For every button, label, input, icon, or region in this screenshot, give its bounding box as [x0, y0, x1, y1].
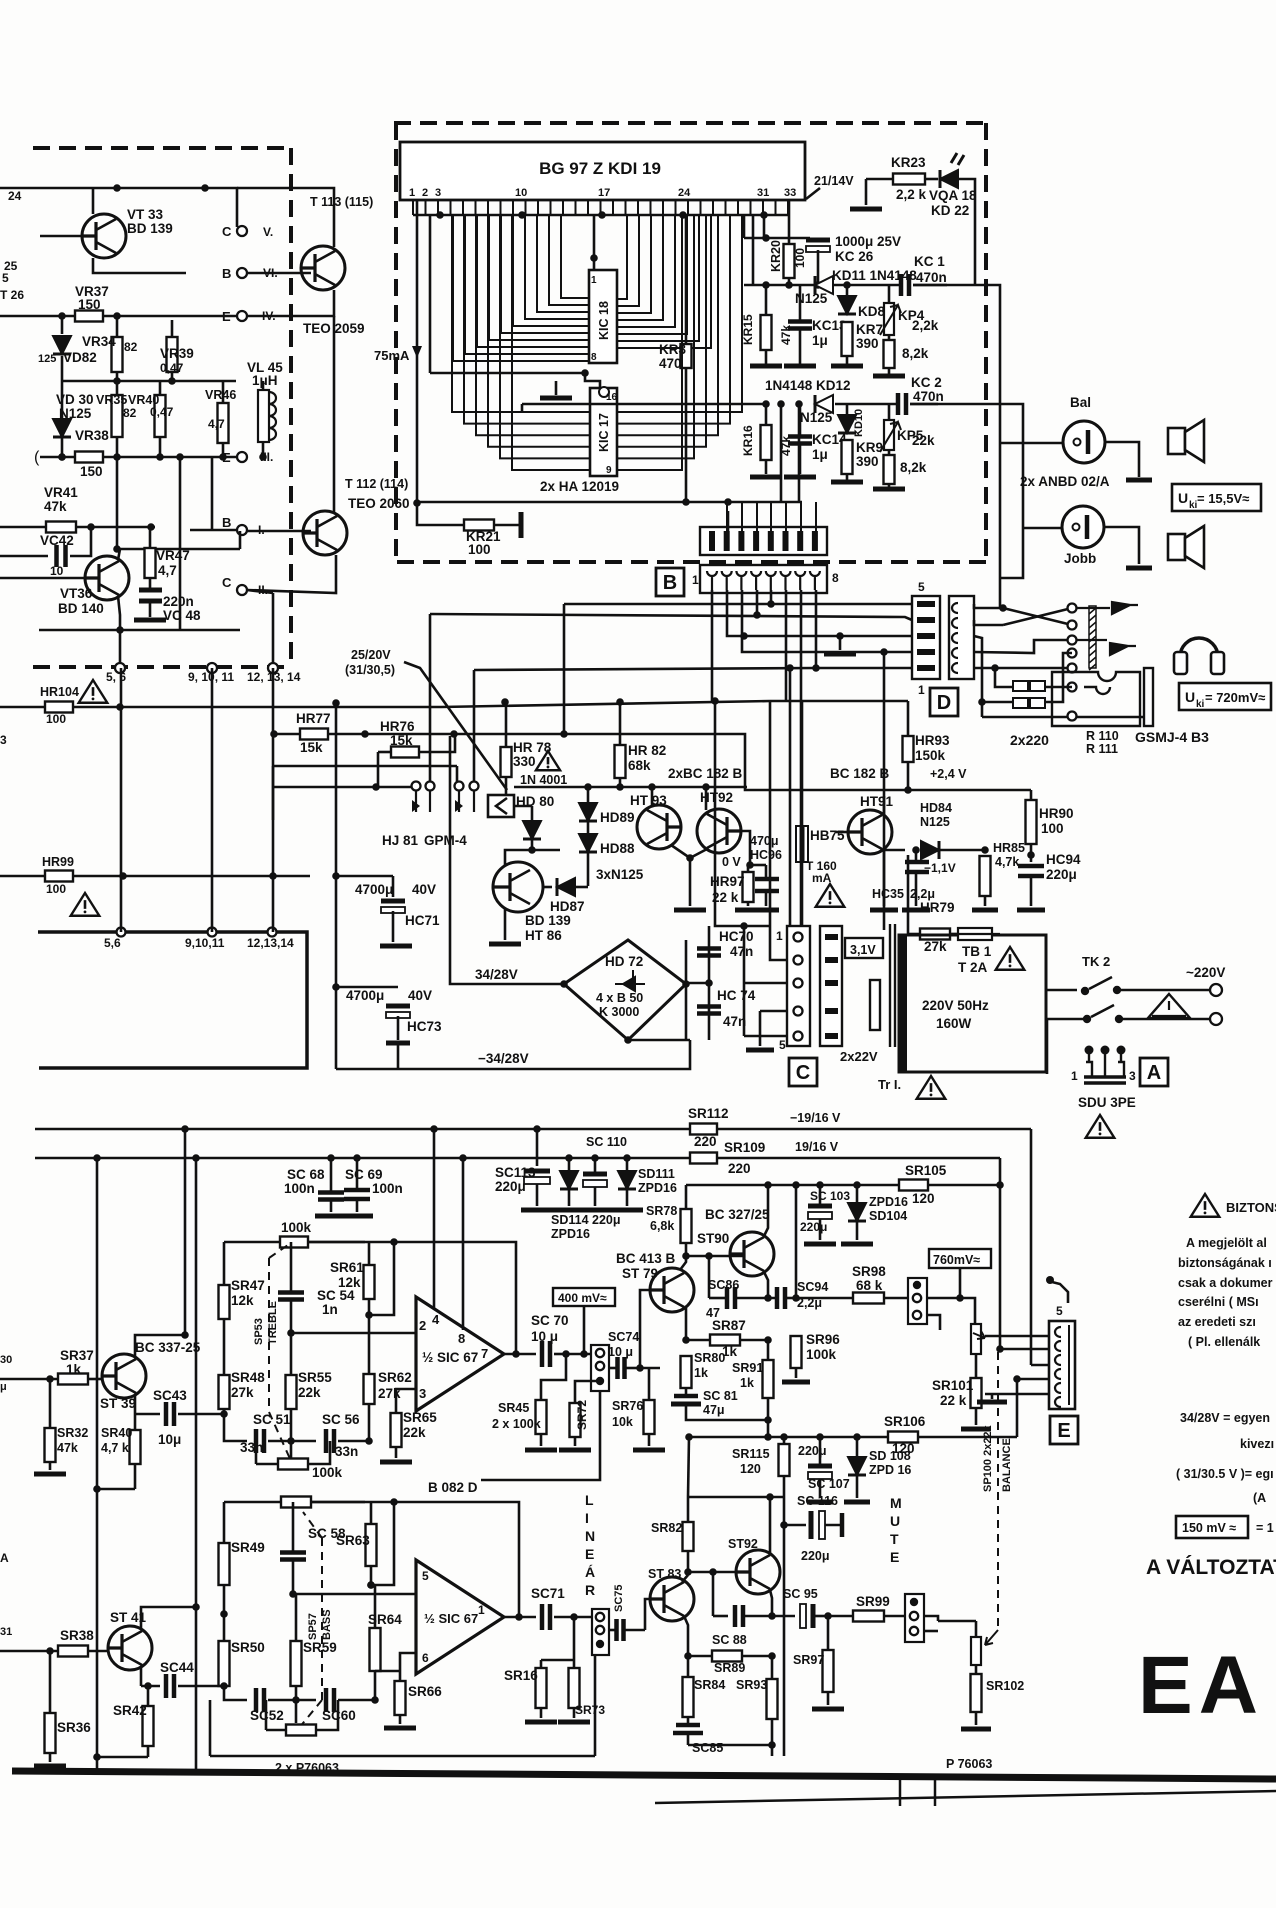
svg-text:T 2A: T 2A [958, 960, 988, 975]
svg-text:22k: 22k [912, 433, 935, 448]
svg-text:SC 56: SC 56 [322, 1412, 360, 1427]
IC U1 BG 97 Z KDI 19 [400, 142, 805, 200]
wire [368, 1299, 371, 1315]
svg-text:KR7: KR7 [856, 322, 883, 337]
svg-text:470μ: 470μ [750, 834, 779, 848]
junction [913, 1281, 921, 1289]
wire B8 to D [816, 590, 912, 668]
junction [46, 1647, 54, 1655]
svg-text:SC 95: SC 95 [783, 1587, 818, 1601]
wire [960, 1298, 975, 1324]
terminal [596, 1362, 604, 1370]
junction [762, 400, 770, 408]
svg-text:760mV≈: 760mV≈ [933, 1253, 980, 1267]
ground SC68 [315, 1214, 347, 1219]
resistor SR115 [779, 1444, 790, 1476]
svg-text:HC71: HC71 [405, 913, 440, 928]
svg-text:SC 68: SC 68 [287, 1167, 325, 1182]
wire fan KIC18 right [617, 215, 711, 348]
ground SR72 [559, 1448, 591, 1453]
wire [939, 849, 985, 852]
svg-text:SR49: SR49 [231, 1540, 265, 1555]
terminal [913, 1311, 921, 1319]
resistor KR20 [784, 244, 795, 278]
junction [824, 1612, 832, 1620]
junction [584, 783, 592, 791]
wire x336 [335, 703, 338, 1069]
junction [327, 1154, 335, 1162]
junction [956, 1294, 964, 1302]
svg-text:SR50: SR50 [231, 1640, 265, 1655]
wire [356, 1158, 359, 1190]
wire [135, 1413, 160, 1416]
wire [370, 1502, 373, 1524]
junction [560, 730, 568, 738]
wire [799, 285, 802, 321]
potentiometer KP4 [884, 303, 894, 335]
svg-text:1: 1 [409, 187, 415, 199]
capacitor SC94 [777, 1287, 785, 1309]
svg-text:HD87: HD87 [550, 899, 585, 914]
svg-text:2,2 k: 2,2 k [896, 187, 927, 202]
junction [219, 453, 227, 461]
terminal [470, 782, 479, 791]
terminal [794, 956, 803, 965]
junction [1113, 986, 1121, 994]
svg-text:1μH: 1μH [252, 373, 278, 388]
svg-text:47n: 47n [730, 944, 753, 959]
junction [289, 1590, 297, 1598]
resistor SR99 [853, 1611, 884, 1622]
svg-text:15k: 15k [390, 733, 413, 748]
terminal [794, 1007, 803, 1016]
wire y604 to D [564, 603, 912, 606]
ground SC107 [807, 1500, 833, 1505]
wire [76, 526, 155, 529]
junction [116, 703, 124, 711]
wire [514, 805, 532, 808]
svg-text:9,10,11: 9,10,11 [185, 936, 225, 950]
wire ST83 collector [682, 1575, 688, 1582]
wire [819, 1437, 822, 1452]
wire [594, 1187, 597, 1206]
capacitor SC75 [617, 1619, 624, 1641]
svg-text:ST92: ST92 [728, 1537, 758, 1551]
wire [974, 620, 1003, 625]
svg-text:SR84: SR84 [694, 1678, 725, 1692]
svg-text:3: 3 [1129, 1069, 1136, 1083]
wire B1 down [711, 590, 714, 701]
capacitor KC1 [901, 274, 909, 296]
junction [361, 730, 369, 738]
svg-text:BD 139: BD 139 [525, 913, 571, 928]
svg-text:KC 1: KC 1 [914, 254, 945, 269]
wire [171, 372, 174, 381]
junction [623, 1154, 631, 1162]
diode VD30 [53, 419, 71, 437]
wire to Jobb [910, 404, 1023, 528]
svg-text:+2,4 V: +2,4 V [930, 767, 967, 781]
svg-text:SC 103: SC 103 [810, 1189, 850, 1203]
svg-text:B 082 D: B 082 D [428, 1480, 478, 1495]
IC KIC17 [590, 388, 617, 476]
current arrow 75mA [412, 346, 422, 358]
wire [772, 1615, 795, 1618]
wire [685, 1185, 688, 1209]
wire [1046, 989, 1077, 992]
svg-text:68 k: 68 k [856, 1278, 883, 1293]
junction [113, 377, 121, 385]
wire [61, 316, 64, 334]
junction [430, 1125, 438, 1133]
svg-text:SC 88: SC 88 [712, 1633, 747, 1647]
svg-text:R: R [585, 1582, 595, 1598]
wire [311, 1501, 365, 1504]
resistor SR32 [45, 1428, 56, 1462]
svg-text:VQA 18: VQA 18 [929, 188, 977, 203]
wire [910, 403, 938, 406]
terminal [207, 663, 217, 673]
junction [740, 632, 748, 640]
svg-text:HR76: HR76 [380, 719, 415, 734]
svg-text:82: 82 [123, 406, 137, 420]
wire [907, 762, 910, 790]
junction [981, 846, 989, 854]
terminal [208, 928, 217, 937]
svg-text:220μ: 220μ [1046, 867, 1077, 882]
svg-text:= 720mV≈: = 720mV≈ [1205, 690, 1265, 705]
potentiometer SR101 [971, 1324, 981, 1354]
wire [296, 1699, 316, 1702]
diode SD108 [848, 1457, 866, 1475]
terminal [910, 1612, 918, 1620]
wire [688, 1655, 712, 1658]
potentiometer SP57 BASS [321, 1538, 323, 1700]
svg-text:1μ: 1μ [812, 447, 828, 462]
ground HT91 [870, 908, 898, 913]
ground 220u [579, 1208, 611, 1213]
junction [816, 1433, 824, 1441]
wire [640, 1367, 660, 1370]
wire [224, 1686, 247, 1700]
svg-text:24: 24 [8, 189, 22, 203]
wire [759, 1011, 762, 1046]
wire bus 19V b [717, 1157, 1000, 1160]
wire [715, 701, 770, 926]
svg-text:KC 2: KC 2 [911, 375, 942, 390]
wire [531, 806, 534, 821]
svg-text:SR112: SR112 [688, 1106, 729, 1121]
wire [536, 1184, 539, 1206]
svg-text:100: 100 [1041, 821, 1064, 836]
wire [116, 381, 119, 395]
svg-text:2x220: 2x220 [1010, 732, 1049, 748]
wire [397, 1043, 400, 1069]
svg-text:~220V: ~220V [1186, 965, 1225, 980]
wire [0, 526, 46, 529]
wire B2 to D [727, 590, 912, 636]
wire [265, 1700, 268, 1730]
junction [413, 499, 421, 507]
svg-text:SC44: SC44 [160, 1660, 194, 1675]
svg-text:22 k: 22 k [940, 1393, 967, 1408]
junction [93, 1753, 101, 1761]
svg-text:8: 8 [458, 1331, 465, 1346]
svg-text:SR45: SR45 [498, 1401, 529, 1415]
connector SC74 block [591, 1345, 609, 1391]
wire [209, 1700, 212, 1756]
wire [429, 215, 432, 373]
wire [985, 1335, 1049, 1338]
ground SR36 [34, 1764, 66, 1769]
svg-text:SR42: SR42 [113, 1703, 147, 1718]
svg-text:VR41: VR41 [44, 485, 78, 500]
junction [762, 234, 770, 242]
wire [116, 437, 119, 457]
wire [1030, 844, 1033, 862]
wire [291, 1440, 316, 1443]
svg-text:SR72: SR72 [575, 1400, 589, 1430]
svg-text:ki: ki [1196, 699, 1205, 710]
terminal [117, 928, 126, 937]
svg-text:SR102: SR102 [986, 1679, 1024, 1693]
wire [417, 502, 464, 525]
resistor SR61 [364, 1265, 375, 1299]
wire [566, 1353, 593, 1356]
wire [88, 1650, 108, 1653]
ground near D [824, 652, 856, 657]
svg-text:HR85: HR85 [993, 841, 1025, 855]
svg-text:0 V: 0 V [722, 855, 741, 869]
wire [959, 1268, 962, 1298]
svg-text:KD11 1N4148: KD11 1N4148 [832, 268, 917, 283]
wire GPM4 up [473, 670, 476, 786]
wire [727, 511, 730, 531]
wire [397, 1016, 400, 1040]
svg-text:HR99: HR99 [42, 855, 74, 869]
junction [332, 872, 340, 880]
wire [995, 668, 1013, 687]
svg-text:VT36: VT36 [60, 586, 93, 601]
diode KD10 [838, 415, 856, 433]
capacitor SC103 [808, 1204, 832, 1209]
wire [991, 1394, 994, 1399]
wire [918, 1436, 1017, 1439]
capacitor HC74 [697, 1007, 721, 1014]
resistor 8.2k lower [884, 455, 895, 484]
resistor HR85 [980, 856, 991, 896]
wire [178, 1413, 224, 1416]
wire [392, 911, 395, 942]
wire Bal to gnd [1105, 442, 1139, 477]
wire [752, 215, 755, 285]
svg-text:KR9: KR9 [856, 440, 883, 455]
svg-text:390: 390 [856, 336, 879, 351]
wire rail y1497 [688, 1496, 784, 1499]
wire rail HR99 [0, 875, 310, 878]
svg-text:2x ANBD 02/A: 2x ANBD 02/A [1020, 474, 1110, 489]
junction [292, 1696, 300, 1704]
svg-text:3: 3 [0, 733, 7, 747]
resistor KR23 [893, 174, 925, 185]
wire rail C [273, 765, 457, 768]
junction [512, 1350, 520, 1358]
connector label E [1050, 1416, 1078, 1444]
diode SD114 [560, 1171, 578, 1189]
potentiometer KP5 [884, 420, 894, 450]
junction [768, 1741, 776, 1749]
wire [742, 1655, 772, 1658]
wire [999, 1158, 1002, 1185]
svg-text:( 31/30.5 V )= egı: ( 31/30.5 V )= egı [1176, 1467, 1274, 1481]
wire [767, 1340, 770, 1360]
svg-text:2: 2 [422, 187, 428, 199]
junction [991, 664, 999, 672]
resistor KR7 [842, 322, 853, 356]
capacitor SC86 [727, 1287, 735, 1309]
hatched isolation bar [1089, 606, 1096, 668]
wire [494, 524, 521, 527]
svg-text:SR78: SR78 [646, 1204, 677, 1218]
svg-text:N125: N125 [800, 410, 833, 425]
svg-text:BG 97 Z KDI 19: BG 97 Z KDI 19 [539, 159, 661, 178]
wire x196 low [195, 1420, 198, 1770]
wire cross1 [1003, 608, 1072, 625]
wire HT92 emitter join [690, 849, 707, 858]
wire [856, 1437, 859, 1457]
svg-text:220: 220 [694, 1134, 717, 1149]
capacitor SC116 [809, 1511, 814, 1539]
wire [575, 886, 588, 889]
wire [541, 1354, 566, 1400]
resistor HR77 [300, 729, 328, 740]
svg-text:100k: 100k [806, 1347, 837, 1362]
resistor SR47 [219, 1285, 230, 1319]
wire B5 down [770, 590, 773, 604]
junction [168, 377, 176, 385]
wire [419, 734, 455, 752]
svg-text:az eredeti szı: az eredeti szı [1178, 1315, 1256, 1329]
resistor SR37 [58, 1374, 88, 1385]
ground KP4 [873, 374, 905, 379]
svg-text:SR82: SR82 [651, 1521, 682, 1535]
svg-text:D: D [937, 692, 951, 714]
svg-text:34/28V = egyen: 34/28V = egyen [1180, 1411, 1270, 1425]
resistor SR78 [681, 1209, 692, 1243]
svg-text:KD 22: KD 22 [931, 203, 969, 218]
connector label C [789, 1058, 817, 1086]
wire [392, 876, 395, 897]
svg-text:1: 1 [692, 573, 699, 587]
wire [825, 1524, 842, 1527]
wire [1000, 528, 1023, 578]
wire [505, 777, 508, 795]
resistor SR73 [569, 1668, 580, 1708]
wire VT36 emitter [118, 549, 120, 560]
wire [134, 1464, 137, 1489]
wire [1017, 1378, 1049, 1381]
svg-text:ST 39: ST 39 [100, 1396, 136, 1411]
wire [686, 982, 709, 985]
switch blade [1091, 1005, 1114, 1017]
svg-text:BD 139: BD 139 [127, 221, 173, 236]
wire [290, 1300, 293, 1333]
wire [223, 1242, 226, 1285]
capacitor SC54 [278, 1293, 304, 1300]
wire [865, 179, 868, 205]
svg-text:220μ: 220μ [801, 1549, 830, 1563]
svg-text:A megjelölt al: A megjelölt al [1186, 1236, 1267, 1250]
svg-text:HC96: HC96 [750, 848, 782, 862]
wire y630 [39, 629, 240, 632]
wire [116, 316, 119, 337]
svg-text:SR37: SR37 [60, 1348, 94, 1363]
box 3.1V [845, 938, 883, 958]
resistor SR66 [395, 1681, 406, 1715]
svg-text:HC94: HC94 [1046, 852, 1081, 867]
junction [353, 1154, 361, 1162]
wire [784, 1524, 806, 1527]
transformer TB1 [899, 935, 1046, 1072]
wire [740, 1339, 768, 1342]
junction [740, 922, 748, 930]
terminal [913, 1294, 921, 1302]
svg-text:470n: 470n [916, 270, 947, 285]
wire [149, 601, 152, 617]
svg-text:HC73: HC73 [407, 1019, 442, 1034]
wire [1046, 1019, 1049, 1074]
svg-text:1N4148 KD12: 1N4148 KD12 [765, 378, 851, 393]
wire pin5 [296, 1593, 415, 1596]
svg-text:VR47: VR47 [156, 548, 190, 563]
svg-text:N: N [585, 1528, 595, 1544]
winding bar [870, 980, 880, 1030]
svg-text:KD8: KD8 [858, 304, 885, 319]
junction [116, 626, 124, 634]
wire [686, 1339, 710, 1342]
wire [573, 1660, 576, 1668]
junction [795, 400, 803, 408]
wires into connector B top [727, 502, 816, 531]
junction [87, 523, 95, 531]
svg-text:−19/16 V: −19/16 V [790, 1111, 841, 1125]
connector label D [930, 688, 958, 716]
svg-text:5, 6: 5, 6 [106, 670, 126, 684]
wire [290, 1409, 293, 1441]
wire [767, 1398, 770, 1437]
wire VT36 collector [118, 596, 120, 664]
svg-text:BC 182 B: BC 182 B [830, 766, 890, 781]
wire [594, 1655, 597, 1756]
junction [996, 1181, 1004, 1189]
wire HT93 emitter [671, 845, 690, 858]
ground KR15 [750, 364, 782, 369]
wire [685, 368, 688, 502]
resistor SR40 [130, 1430, 141, 1464]
wire [847, 284, 903, 287]
svg-text:4,7 k: 4,7 k [101, 1441, 129, 1455]
wire ch2 bottom [210, 1755, 595, 1758]
svg-text:= 1: = 1 [1256, 1521, 1274, 1535]
terminal [596, 1626, 604, 1634]
wire [573, 1617, 576, 1660]
svg-text:6,8k: 6,8k [650, 1219, 674, 1233]
resistor R110 [1013, 681, 1028, 691]
wire [888, 368, 891, 374]
svg-text:L: L [585, 1492, 594, 1508]
junction [746, 861, 754, 869]
wire [975, 1408, 978, 1425]
